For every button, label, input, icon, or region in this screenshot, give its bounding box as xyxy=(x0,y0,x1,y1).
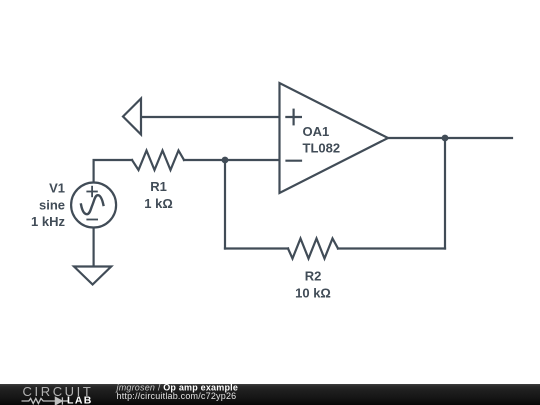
input flag arrow xyxy=(123,99,141,135)
svg-text:LAB: LAB xyxy=(67,395,93,405)
svg-text:TL082: TL082 xyxy=(303,141,341,156)
wire: feedback right vertical xyxy=(444,138,446,249)
V1 minus symbol xyxy=(87,219,97,221)
V1 plus symbol xyxy=(87,187,97,220)
wire: feedback bottom left segment xyxy=(225,247,288,249)
node junction at inverting input xyxy=(222,157,229,164)
svg-text:1 kΩ: 1 kΩ xyxy=(144,196,173,211)
wire: V1 top vertical xyxy=(94,160,132,183)
wire: V1 bottom vertical xyxy=(92,228,94,267)
ground xyxy=(74,267,111,285)
wire: feedback bottom right segment xyxy=(338,247,445,249)
wire: noninverting input to flag xyxy=(141,116,280,118)
resistor R1 xyxy=(132,151,184,171)
op-amp minus symbol xyxy=(287,160,302,162)
wire: feedback left vertical xyxy=(224,160,226,249)
footer logo squiggle xyxy=(22,397,69,404)
wire: output xyxy=(388,137,512,139)
voltage source V1 xyxy=(71,183,116,228)
op-amp OA1 xyxy=(280,83,389,193)
svg-text:V1: V1 xyxy=(49,181,65,196)
resistor R2 xyxy=(288,239,338,259)
svg-text:1 kHz: 1 kHz xyxy=(31,214,65,229)
svg-text:sine: sine xyxy=(39,198,65,213)
footer bar xyxy=(0,384,540,405)
node junction at output xyxy=(442,135,449,142)
op-amp plus symbol xyxy=(286,116,301,118)
wire: R1 to op-amp inverting input xyxy=(184,159,280,161)
svg-text:R2: R2 xyxy=(305,269,322,284)
svg-text:http://circuitlab.com/c72yp26: http://circuitlab.com/c72yp26 xyxy=(117,391,237,401)
svg-text:R1: R1 xyxy=(150,179,167,194)
V1 sine symbol xyxy=(81,195,103,214)
svg-text:OA1: OA1 xyxy=(303,124,330,139)
svg-text:10 kΩ: 10 kΩ xyxy=(295,286,331,301)
